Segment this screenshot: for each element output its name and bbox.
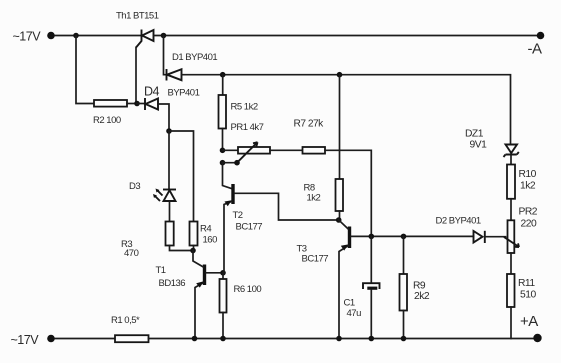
zener diode DZ1	[504, 145, 519, 158]
transistor T2	[224, 184, 233, 273]
junction dot T3 emitter on rail	[336, 336, 342, 342]
svg-text:T1: T1	[156, 265, 166, 276]
label R3 470	[121, 239, 139, 259]
wire top rail left	[55, 35, 141, 37]
wire R3 bottom to node	[170, 246, 194, 251]
wire T2 collector feed	[223, 163, 232, 189]
wire R10 to PR2	[510, 199, 512, 221]
label R4 160	[200, 224, 217, 246]
svg-text:DZ1: DZ1	[465, 129, 484, 140]
junction dot gate node	[134, 101, 140, 107]
wire gate node to D4	[137, 103, 145, 105]
junction dot T3 collector node	[336, 217, 342, 223]
wire PR2 to R11	[510, 253, 512, 274]
wire bottom rail right	[149, 338, 538, 340]
junction dot R9 on rail	[401, 336, 407, 342]
label R11 510	[518, 278, 536, 301]
svg-text:1k2: 1k2	[307, 193, 321, 204]
label DZ1 9V1	[465, 129, 487, 151]
label T2 BC177	[233, 210, 263, 233]
resistor R11	[507, 274, 515, 307]
transistor T1	[193, 251, 223, 339]
resistor R8	[336, 179, 344, 211]
wire to D3	[168, 131, 170, 190]
junction dot D3/R4 split	[166, 128, 172, 134]
capacitor C1	[363, 283, 380, 290]
junction dot T1 emitter on rail	[192, 336, 198, 342]
node ~17V bottom terminal	[11, 333, 55, 347]
wire R9 top	[403, 236, 405, 274]
svg-text:D3: D3	[129, 181, 140, 192]
wire DZ1 to R10	[510, 156, 512, 165]
wire T2 base	[235, 193, 339, 220]
svg-text:160: 160	[203, 235, 218, 246]
svg-text:BC177: BC177	[236, 222, 263, 233]
wire to R4 top	[169, 131, 194, 222]
resistor R9	[400, 274, 408, 311]
wire R8 bottom	[339, 211, 341, 220]
wire R8 top	[339, 75, 341, 179]
LED D3	[153, 189, 176, 202]
svg-text:PR1 4k7: PR1 4k7	[231, 122, 264, 133]
resistor R5	[219, 95, 227, 129]
wire R2 branch	[76, 36, 94, 104]
wire R6 bottom	[222, 313, 224, 339]
svg-text:510: 510	[520, 290, 536, 301]
svg-text:BC177: BC177	[302, 254, 329, 265]
svg-text:-A: -A	[528, 41, 542, 58]
svg-text:T2: T2	[233, 210, 243, 221]
wire D3 to R3	[169, 201, 171, 222]
junction dot PR1 left	[220, 148, 226, 154]
label R9 2k2	[413, 281, 430, 303]
resistor R6	[220, 279, 227, 313]
resistor R2	[94, 100, 127, 107]
wire C1 top	[370, 236, 372, 283]
resistor R10	[507, 165, 515, 199]
junction dot R5 branch	[220, 72, 226, 78]
wire top rail right	[154, 35, 541, 37]
junction dot R8 branch	[337, 72, 343, 78]
svg-text:D1 BYP401: D1 BYP401	[172, 52, 217, 63]
junction dot T1 collector node	[190, 248, 196, 254]
svg-text:+A: +A	[520, 313, 538, 330]
junction dot C1 node	[369, 234, 375, 240]
svg-text:R6 100: R6 100	[234, 284, 262, 295]
node -A terminal	[528, 32, 545, 58]
resistor R4	[190, 222, 198, 246]
svg-text:BYP401: BYP401	[168, 88, 200, 99]
diode D2	[474, 231, 485, 243]
svg-text:R11: R11	[518, 278, 535, 289]
label PR2 220	[519, 207, 538, 230]
svg-text:R1 0,5*: R1 0,5*	[111, 315, 140, 326]
svg-text:D4: D4	[144, 85, 160, 99]
resistor R1	[115, 335, 149, 342]
wire R5 top	[222, 75, 224, 95]
potentiometer PR2	[504, 220, 519, 253]
wire R7 right to C1 node	[325, 150, 371, 236]
wire node to R6	[222, 273, 224, 279]
svg-text:Th1 BT151: Th1 BT151	[116, 11, 159, 22]
wire R9 bottom	[403, 311, 405, 339]
wire bottom rail left	[55, 338, 115, 340]
svg-text:D2 BYP401: D2 BYP401	[436, 216, 481, 227]
svg-text:R4: R4	[200, 224, 211, 235]
wire D2 cathode to PR2 wiper	[485, 236, 506, 238]
diode D1	[167, 69, 182, 81]
resistor R7	[303, 147, 326, 154]
junction dot C1 on rail	[369, 336, 375, 342]
svg-text:PR2: PR2	[519, 207, 538, 218]
junction dot R6 on rail	[220, 336, 226, 342]
diode D4	[145, 98, 158, 110]
svg-text:C1: C1	[344, 298, 355, 309]
wire R5 bottom	[222, 129, 224, 151]
junction dot T1 base / R6	[220, 270, 226, 276]
svg-text:220: 220	[521, 219, 537, 230]
svg-text:R7 27k: R7 27k	[294, 119, 325, 130]
wire PR1 to R7	[270, 149, 303, 151]
svg-text:47u: 47u	[347, 308, 362, 319]
wire PR1 left lead	[223, 149, 239, 151]
junction dot PR1 wiper node	[220, 160, 226, 166]
label R10 1k2	[519, 169, 537, 192]
svg-text:BD136: BD136	[159, 278, 186, 289]
svg-text:R9: R9	[413, 281, 426, 292]
node ~17V top terminal	[13, 30, 55, 44]
svg-text:R10: R10	[519, 169, 537, 180]
label T1 BD136	[156, 265, 186, 289]
label T3 BC177	[297, 244, 329, 265]
wire wiper tie	[223, 162, 238, 164]
wire D1 branch down	[164, 36, 167, 75]
svg-text:9V1: 9V1	[470, 140, 488, 151]
thyristor Th1	[136, 30, 154, 48]
wire R2 to gate node	[127, 103, 137, 105]
label R8 1k2	[304, 183, 321, 204]
wire second rail	[182, 75, 511, 144]
wire R4 bottom to node	[193, 246, 195, 251]
junction dot R9 top	[401, 234, 407, 240]
transistor T3	[339, 220, 474, 339]
node +A terminal	[520, 313, 542, 342]
svg-text:~17V: ~17V	[11, 333, 40, 347]
svg-text:~17V: ~17V	[13, 30, 42, 44]
potentiometer PR1	[237, 142, 270, 163]
resistor R3	[166, 222, 174, 246]
svg-text:R2 100: R2 100	[93, 115, 121, 126]
wire Th1 gate down	[135, 48, 137, 104]
junction dot wiper end	[234, 160, 240, 166]
junction dot D1 branch	[161, 33, 167, 39]
svg-text:R5 1k2: R5 1k2	[231, 102, 258, 113]
svg-text:1k2: 1k2	[520, 181, 536, 192]
label C1 47u	[344, 298, 362, 320]
wire D4 anode down	[158, 104, 169, 131]
svg-text:2k2: 2k2	[414, 291, 430, 302]
wire R11 bottom	[510, 307, 512, 339]
wire C1 bottom	[370, 290, 372, 339]
svg-text:470: 470	[124, 248, 139, 259]
junction dot R2 branch	[73, 33, 79, 39]
